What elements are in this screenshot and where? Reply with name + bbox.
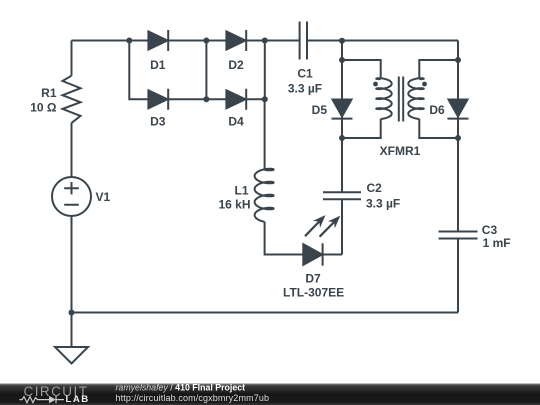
svg-text:C3: C3: [482, 223, 498, 237]
LED arrows D7: [305, 221, 335, 237]
wire D4 to right: [246, 98, 265, 100]
node junction row2-mid: [203, 96, 209, 102]
ground: [55, 347, 88, 364]
node junction C1-right: [339, 38, 345, 44]
wire top to D5/XFMR node: [341, 41, 343, 61]
svg-text:D3: D3: [150, 114, 166, 128]
svg-text:http://circuitlab.com/cgxbmry2: http://circuitlab.com/cgxbmry2mm7ub: [116, 393, 270, 403]
wire bridge mid vertical: [205, 41, 207, 100]
transformer XFMR1 primary coil: [376, 78, 391, 119]
svg-text:1 mF: 1 mF: [483, 236, 511, 250]
diode D6: [457, 60, 459, 100]
svg-text:D1: D1: [150, 58, 166, 72]
node junction D5 bottom: [339, 135, 345, 141]
svg-text:R1: R1: [41, 86, 57, 100]
node junction row2-right: [262, 96, 268, 102]
svg-text:D5: D5: [312, 103, 328, 117]
node junction ground: [69, 310, 75, 316]
wire D1-D2: [168, 40, 226, 42]
wire C3 bottom: [457, 239, 459, 313]
svg-text:ramyelshafey / 410 FInal Proje: ramyelshafey / 410 FInal Project: [116, 383, 246, 393]
capacitor C1: [300, 22, 307, 60]
svg-text:L1: L1: [234, 183, 248, 197]
diode D4: [226, 90, 245, 108]
wire bottom rail: [72, 312, 459, 314]
wire top rail right: [307, 40, 458, 42]
transformer XFMR1 secondary lead: [419, 60, 458, 138]
diode D5: [341, 60, 343, 100]
CircuitLab logo mini schematic: [20, 396, 65, 403]
svg-text:10 Ω: 10 Ω: [30, 101, 57, 115]
svg-text:D7: D7: [305, 271, 321, 285]
svg-text:16 kH: 16 kH: [218, 197, 250, 211]
inductor L1: [255, 169, 274, 222]
wire right rail down: [457, 41, 459, 232]
node junction top-mid: [203, 38, 209, 44]
svg-text:3.3 µF: 3.3 µF: [288, 82, 322, 96]
transformer XFMR1 secondary coil: [408, 78, 423, 119]
capacitor C2: [323, 192, 361, 199]
diode D1: [148, 32, 167, 50]
wire top rail left: [72, 40, 300, 42]
svg-text:D6: D6: [429, 103, 445, 117]
wire left rail (R1/V1 column): [71, 41, 73, 348]
wire C2 top: [341, 138, 343, 192]
wire D3-D4: [168, 98, 226, 100]
diode D3: [148, 90, 167, 108]
node junction D5 top: [339, 57, 345, 63]
capacitor C3: [439, 232, 478, 239]
resistor R1: [63, 76, 81, 123]
wire D2 to right rail: [246, 40, 265, 42]
source V1: [52, 177, 91, 216]
svg-text:D2: D2: [228, 58, 244, 72]
node junction top-right: [262, 38, 268, 44]
svg-text:3.3 µF: 3.3 µF: [366, 197, 400, 211]
svg-text:D4: D4: [228, 114, 244, 128]
XFMR1 phase dot secondary: [422, 82, 427, 87]
svg-text:V1: V1: [96, 190, 111, 204]
node junction top-left: [126, 38, 132, 44]
node junction D6 bottom: [455, 135, 461, 141]
transformer XFMR1 primary lead: [342, 60, 381, 138]
wire bridge left vertical: [129, 41, 148, 100]
svg-text:C1: C1: [297, 67, 313, 81]
svg-text:LTL-307EE: LTL-307EE: [283, 286, 344, 300]
XFMR1 phase dot primary: [373, 82, 378, 87]
svg-text:C2: C2: [367, 181, 383, 195]
svg-text:LAB: LAB: [66, 394, 90, 405]
wire bridge right vertical + L1 column: [264, 41, 266, 170]
node junction D6 top: [455, 57, 461, 63]
svg-text:XFMR1: XFMR1: [380, 144, 421, 158]
LED D7: [303, 244, 322, 265]
diode D2: [226, 32, 245, 50]
wire D7 to C2 column: [323, 199, 342, 254]
wire L1 bottom to D7: [265, 222, 304, 255]
transformer XFMR1 core: [399, 77, 403, 122]
